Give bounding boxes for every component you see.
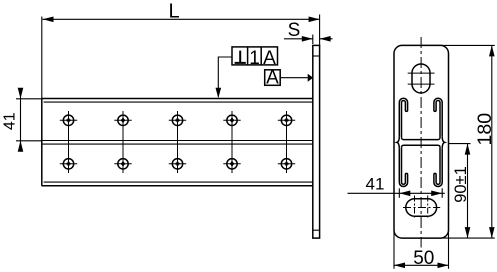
hole row 2 circles <box>63 159 291 169</box>
wire channel bottom edge <box>42 185 313 187</box>
channel section: bottom channel left wall and lip <box>399 147 407 186</box>
top slot lower arc center line <box>408 83 435 85</box>
svg-text:41: 41 <box>366 175 385 194</box>
svg-text:A: A <box>263 48 276 69</box>
hole horizontal crosshair ticks row 2 <box>60 163 295 165</box>
channel section: middle pinch right <box>442 137 444 149</box>
channel section: top channel right wall and lip <box>434 98 442 137</box>
feature control frame leader arrow <box>216 88 222 99</box>
channel section: middle pinch left <box>397 137 399 149</box>
hole horizontal crosshair ticks row 1 <box>60 119 295 121</box>
dimension 180 bottom arrow <box>489 227 495 238</box>
bottom slot hole <box>406 199 437 217</box>
dimension 41 right arrow <box>431 191 442 197</box>
dimension 41 extension right <box>441 188 443 198</box>
svg-text:180: 180 <box>474 113 496 146</box>
wire channel middle seam upper <box>42 140 313 142</box>
dimension L right arrow <box>309 17 320 23</box>
end plate top corner tangent tick <box>313 55 320 57</box>
dimension L line <box>43 18 320 20</box>
dimension 50 line <box>394 264 449 266</box>
svg-text:L: L <box>168 0 179 22</box>
datum filled triangle <box>308 74 314 82</box>
svg-text:90±1: 90±1 <box>452 166 470 203</box>
dimension 90±1 top arrow <box>465 144 471 155</box>
svg-text:S: S <box>288 20 301 41</box>
holes columns <box>69 111 287 173</box>
dimension 50 extension left <box>393 230 395 269</box>
channel section: top channel left wall and lip <box>399 98 407 137</box>
dimension 41 top arrow <box>18 88 24 99</box>
feature control frame leader <box>218 57 232 97</box>
svg-text:50: 50 <box>413 248 434 269</box>
hole column 3 centerline <box>177 111 179 173</box>
svg-text:A: A <box>266 68 279 89</box>
vertical centerline <box>420 37 422 248</box>
hole column 1 centerline <box>68 111 70 173</box>
dimension 41 bottom arrow <box>18 141 24 152</box>
svg-text:1: 1 <box>249 48 260 69</box>
dimension 50 extension right <box>448 230 450 269</box>
dimension 90±1 line <box>467 144 469 239</box>
bottom slot right arc centerline <box>427 196 429 220</box>
hole center marks row 1 <box>67 118 289 122</box>
wire channel left end face <box>41 99 43 186</box>
top slot upper arc center line <box>408 72 435 74</box>
dimension L extension line left <box>41 17 43 99</box>
channel section: bottom channel right wall and lip <box>434 147 442 186</box>
dimension 180 extension bottom <box>440 237 495 239</box>
end plate bottom corner tangent tick <box>313 229 320 231</box>
dimension 180 line <box>491 45 493 238</box>
hole column 2 centerline <box>122 111 124 173</box>
bottom slot horizontal centerline <box>403 207 440 209</box>
hole center marks row 2 <box>67 162 289 166</box>
dimension 90±1 extension top <box>449 143 471 145</box>
dimension 180 extension top <box>440 44 495 46</box>
end plate side view <box>313 45 320 238</box>
hole column 5 centerline <box>286 111 288 173</box>
top slot hole <box>412 64 430 93</box>
dimension S left line with arrow <box>284 38 313 40</box>
dimension 90±1 bottom arrow <box>465 227 471 238</box>
wire channel top edge <box>42 98 313 100</box>
datum feature box A <box>265 70 281 86</box>
end plate outline rounded rect <box>394 45 449 238</box>
dimension 50 right arrow <box>438 263 449 269</box>
dimension 41 extension line bottom <box>16 140 42 142</box>
dimension 180 top arrow <box>489 45 495 56</box>
dimension S extension line (plate left edge extended) <box>312 35 314 44</box>
hole column 4 centerline <box>231 111 233 173</box>
hole row 1 circles <box>63 115 291 125</box>
dimension 50 left arrow <box>394 263 405 269</box>
dimension L extension line right (plate right edge extended) <box>319 15 321 46</box>
dimension 41 (right view) line <box>348 192 445 194</box>
wire channel bottom inner lip line <box>44 181 313 183</box>
channel section: top channel back inner surface <box>402 138 441 140</box>
dimension S right line with arrow <box>320 38 333 40</box>
dimension 41 extension line top <box>16 98 42 100</box>
wire channel middle seam lower <box>42 143 313 145</box>
channel section: bottom channel back inner surface <box>402 145 441 147</box>
bottom slot left arc centerline <box>414 196 416 220</box>
dimension 41 (left) dimension line <box>20 89 22 151</box>
feature control frame box <box>232 47 278 65</box>
dimension L left arrow <box>43 17 54 23</box>
perpendicularity symbol <box>235 51 246 63</box>
datum leader line <box>280 77 308 79</box>
svg-text:41: 41 <box>2 112 19 130</box>
dimension 41 left arrow <box>399 191 410 197</box>
dimension 41 extension left <box>398 188 400 198</box>
wire channel top inner lip line <box>44 101 313 103</box>
